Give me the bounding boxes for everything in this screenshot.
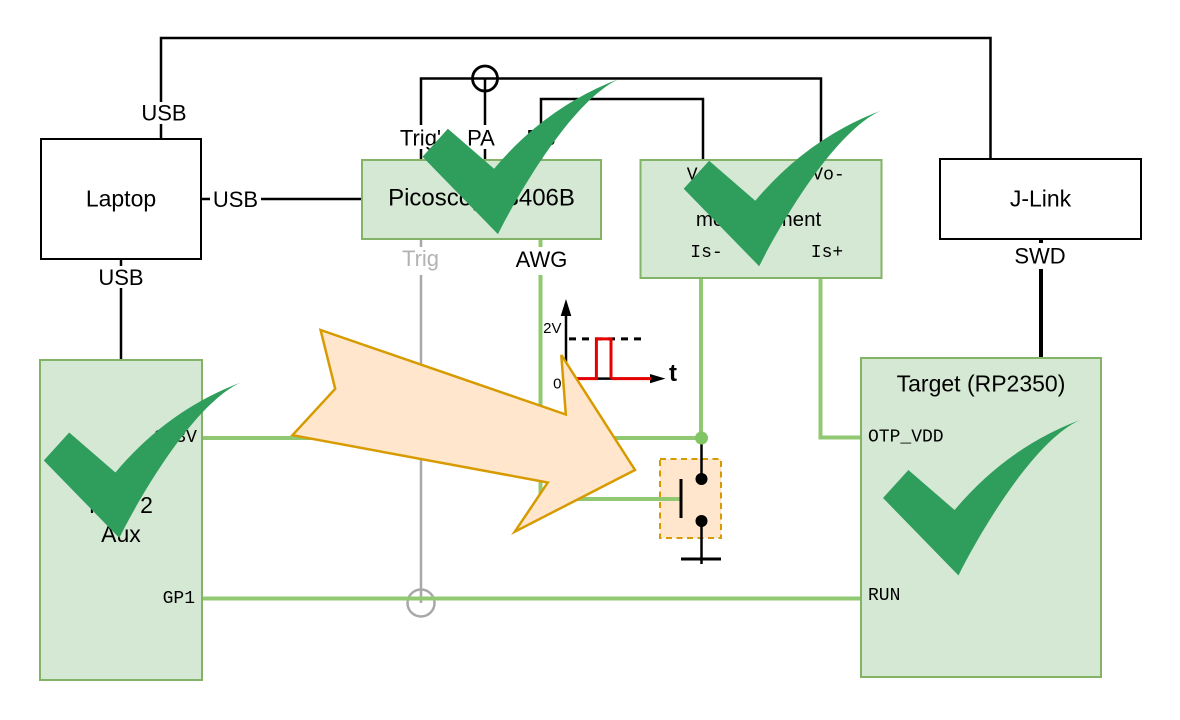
- svg-text:J-Link: J-Link: [1010, 186, 1072, 212]
- svg-text:Target (RP2350): Target (RP2350): [897, 371, 1066, 397]
- svg-text:Is+: Is+: [811, 243, 843, 263]
- svg-text:SWD: SWD: [1014, 244, 1065, 269]
- svg-text:t: t: [669, 360, 677, 387]
- svg-text:RUN: RUN: [868, 586, 900, 606]
- svg-text:GP1: GP1: [163, 589, 195, 609]
- svg-text:PA: PA: [467, 126, 495, 151]
- svg-text:AWG: AWG: [516, 247, 568, 272]
- svg-text:USB: USB: [213, 187, 258, 212]
- svg-text:OTP_VDD: OTP_VDD: [868, 428, 944, 448]
- svg-text:Trig: Trig: [402, 246, 439, 271]
- svg-text:USB: USB: [141, 101, 186, 126]
- svg-text:USB: USB: [98, 265, 143, 290]
- svg-text:2V: 2V: [543, 320, 561, 337]
- svg-text:Laptop: Laptop: [86, 186, 156, 212]
- svg-text:0: 0: [553, 376, 561, 393]
- svg-text:Is-: Is-: [690, 243, 722, 263]
